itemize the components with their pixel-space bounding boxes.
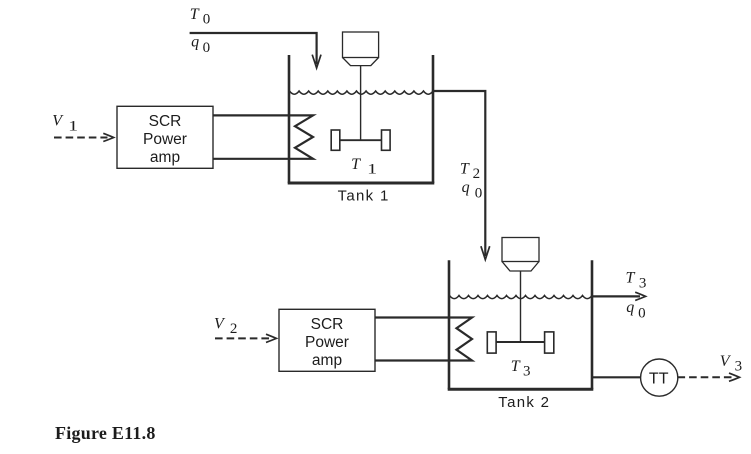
svg-text:q0: q0 [462,179,483,202]
svg-text:Tank 1: Tank 1 [338,187,390,204]
svg-text:V3: V3 [720,353,742,375]
svg-text:TT: TT [649,371,669,388]
svg-text:Power: Power [143,131,187,148]
svg-text:V1: V1 [52,113,78,135]
svg-text:SCR: SCR [311,316,344,333]
svg-text:T3: T3 [626,270,647,292]
svg-text:amp: amp [312,352,342,369]
svg-text:Tank 2: Tank 2 [498,394,550,411]
svg-text:Power: Power [305,334,349,351]
svg-text:q0: q0 [191,34,210,57]
svg-text:T1: T1 [351,156,377,178]
svg-text:amp: amp [150,149,180,166]
svg-text:T0: T0 [190,6,211,28]
svg-text:Figure E11.8: Figure E11.8 [55,423,156,443]
svg-text:T3: T3 [511,358,531,380]
svg-text:V2: V2 [214,315,237,337]
svg-text:q0: q0 [626,299,645,322]
svg-text:SCR: SCR [149,113,182,130]
